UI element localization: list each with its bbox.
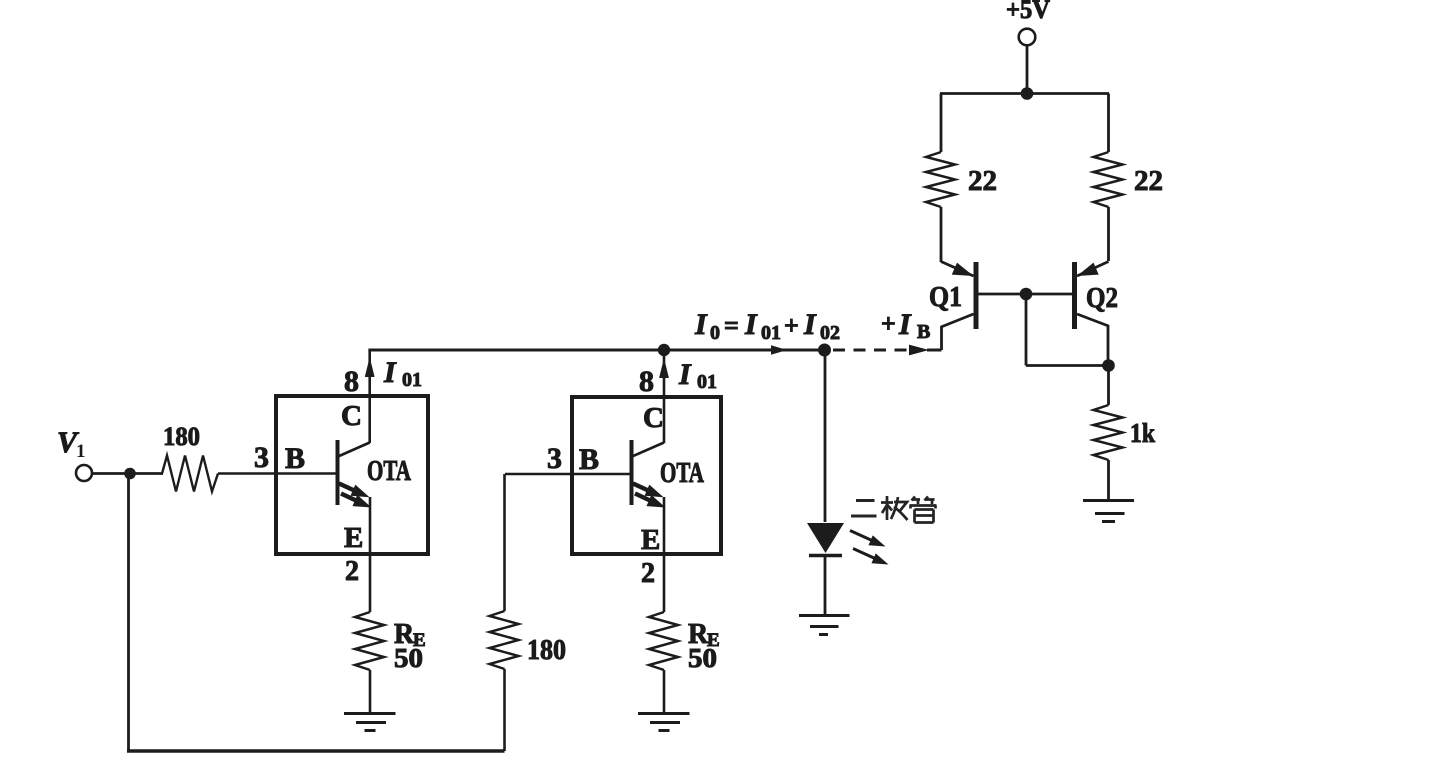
svg-text:+: +: [784, 311, 799, 340]
arrow IB right: [909, 345, 929, 356]
wire Q2 collector to 1k: [1107, 366, 1110, 406]
transistor Q2 bar: [1072, 262, 1077, 329]
svg-text:3: 3: [254, 441, 269, 474]
resistor 180 (vertical): [490, 611, 519, 669]
wire OTA1 pin8 collector up: [368, 350, 371, 443]
transistor inside OTA2 bar: [630, 440, 634, 505]
transistor OTA1 emitter double arrow: [339, 484, 362, 495]
Q2 emitter diagonal: [1077, 262, 1109, 277]
svg-text:I: I: [383, 356, 397, 389]
svg-text:22: 22: [1134, 165, 1163, 197]
transistor OTA2 collector diagonal: [632, 443, 664, 457]
wire 180 down to bottom: [503, 669, 506, 751]
wire rail down left: [940, 94, 943, 153]
wire base tie across: [1026, 364, 1108, 367]
Q2 emitter arrow: [1077, 263, 1099, 276]
svg-text:I: I: [744, 308, 758, 341]
transistor OTA1 collector diagonal: [338, 443, 370, 457]
Q1 collector down: [940, 326, 943, 350]
svg-text:+: +: [881, 309, 896, 338]
transistor OTA2 emitter double arrow: [633, 484, 656, 495]
wire V1 to node: [93, 472, 164, 475]
resistor 1k: [1094, 405, 1123, 460]
node Q2 collector junction: [1102, 359, 1115, 372]
wire base tie down: [1025, 294, 1028, 366]
op-amp U2 OTA box: [572, 397, 721, 554]
svg-text:I: I: [803, 308, 817, 341]
svg-text:=: =: [724, 311, 739, 340]
arrow I0 right: [771, 345, 787, 355]
wire main summing line: [368, 349, 824, 352]
terminal +5V: [1019, 29, 1036, 46]
wire LED branch down: [824, 350, 827, 522]
svg-text:E: E: [344, 522, 363, 554]
wire RE2 to ground: [663, 670, 666, 713]
svg-text:50: 50: [394, 643, 423, 673]
svg-text:C: C: [643, 402, 664, 434]
svg-text:OTA: OTA: [367, 456, 412, 487]
svg-text:2: 2: [641, 558, 655, 589]
label 二极管 char 二: [851, 501, 877, 517]
wire LED to ground: [824, 556, 827, 615]
svg-text:1: 1: [76, 441, 86, 462]
node pin8 OTA2 junction: [658, 344, 670, 356]
svg-text:180: 180: [527, 635, 566, 666]
wire 1k to ground: [1107, 460, 1110, 500]
wire bottom feedback: [127, 749, 505, 753]
svg-text:B: B: [285, 442, 305, 475]
label 二极管 char 极: [881, 496, 908, 520]
op-amp U1 OTA box: [276, 396, 428, 554]
svg-text:180: 180: [163, 422, 200, 451]
Q1 emitter diagonal: [941, 262, 974, 277]
resistor 22 left: [926, 152, 955, 207]
svg-text:+5V: +5V: [1006, 0, 1050, 24]
arrow I01 up: [365, 357, 375, 377]
resistor RE2: [649, 612, 678, 670]
wire 22R to Q2 emitter: [1107, 207, 1110, 261]
resistor RE1: [355, 612, 384, 670]
svg-text:I: I: [694, 308, 708, 341]
svg-text:3: 3: [547, 442, 562, 475]
wire dashed to mirror: [833, 349, 909, 352]
wire OTA2 pin8 collector up: [663, 350, 666, 443]
wire 180 to OTA1 pin3: [218, 472, 337, 475]
svg-text:8: 8: [344, 365, 359, 398]
svg-text:OTA: OTA: [660, 458, 705, 489]
wire +5V rail: [940, 92, 1109, 95]
Q1 collector diagonal: [941, 314, 974, 327]
Q1 base wire: [978, 293, 1073, 296]
transistor inside OTA1 bar: [336, 440, 340, 505]
Q2 collector diagonal: [1077, 314, 1109, 326]
svg-text:22: 22: [968, 165, 997, 197]
wire OTA2 pin3 base: [505, 473, 632, 476]
LED light arrow 2: [853, 549, 875, 559]
LED light arrow 1: [850, 531, 872, 541]
svg-text:01: 01: [761, 322, 781, 344]
wire OTA1 pin2 down: [369, 497, 372, 612]
label 二极管 char 管: [910, 497, 937, 523]
LED cathode bar: [809, 554, 842, 558]
svg-text:B: B: [917, 321, 930, 343]
ground (LED): [799, 616, 850, 635]
wire arrow to Q1 collector: [927, 349, 942, 352]
svg-text:8: 8: [639, 365, 654, 398]
wire rail down right: [1107, 94, 1110, 153]
svg-text:B: B: [579, 443, 599, 476]
wire OTA2 base down: [503, 474, 506, 611]
wire +5V down: [1026, 46, 1029, 94]
ground (RE2): [638, 714, 690, 731]
LED D1 triangle: [807, 523, 844, 553]
svg-text:50: 50: [688, 643, 717, 673]
svg-text:2: 2: [345, 556, 359, 587]
svg-text:I: I: [678, 358, 692, 391]
node base junction: [1020, 288, 1033, 301]
wire node down left side: [127, 474, 130, 752]
resistor 22 right: [1094, 152, 1123, 207]
svg-text:02: 02: [820, 322, 840, 344]
wire RE1 to ground: [369, 670, 372, 713]
ground (1k): [1083, 501, 1134, 522]
svg-text:01: 01: [697, 371, 717, 393]
svg-text:Q1: Q1: [929, 281, 962, 313]
Q2 collector down: [1107, 325, 1110, 365]
terminal V1: [76, 465, 92, 481]
wire 22L to Q1 emitter: [940, 207, 943, 262]
svg-text:I: I: [898, 308, 912, 341]
svg-text:0: 0: [710, 322, 720, 344]
node +5V rail junction: [1021, 87, 1034, 100]
Q1 emitter arrow: [952, 263, 974, 276]
transistor Q1 bar: [974, 262, 979, 329]
svg-text:E: E: [641, 524, 660, 556]
arrow I01 up (U2): [659, 358, 669, 378]
svg-text:01: 01: [402, 369, 422, 391]
ground (RE1): [344, 714, 396, 731]
node I0 junction: [818, 344, 831, 357]
svg-text:1k: 1k: [1130, 418, 1155, 448]
node V1 junction: [124, 468, 136, 480]
wire OTA2 pin2 down: [663, 497, 666, 612]
svg-text:C: C: [341, 400, 362, 432]
resistor 180 horizontal: [162, 456, 218, 492]
svg-text:Q2: Q2: [1086, 282, 1118, 314]
